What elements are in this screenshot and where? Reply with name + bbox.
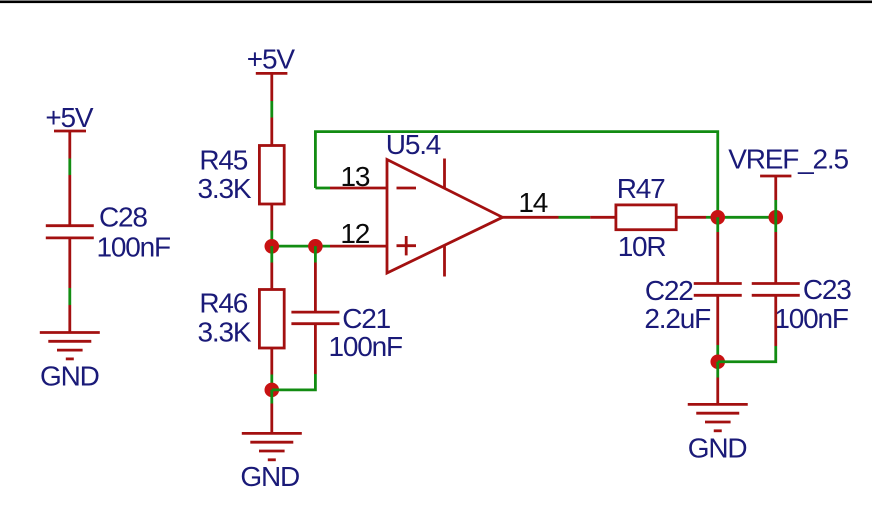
- svg-text:100nF: 100nF: [774, 303, 847, 334]
- wire C21 to ground node (green L): [272, 374, 316, 390]
- op-amp plus sign vertical: [405, 236, 408, 255]
- capacitor C28 top plate: [46, 224, 94, 227]
- wire (pin stub): [68, 305, 71, 333]
- wire C22 bottom (pin stub): [716, 295, 719, 345]
- ground symbol (right): [688, 404, 748, 430]
- VREF_2.5 supply bar: [760, 175, 791, 178]
- svg-text:13: 13: [341, 161, 370, 192]
- svg-text:C22: C22: [645, 275, 693, 306]
- resistor R45 body: [259, 146, 284, 205]
- op-amp U5.4 pin 13 stub: [330, 187, 387, 190]
- junction output node dot: [710, 210, 725, 225]
- junction node 12 (left dot): [265, 239, 280, 254]
- feedback wire from pin 13 to output node (green): [315, 132, 717, 218]
- wire (green net segment): [68, 159, 71, 176]
- junction node 12 (right dot at C21): [308, 239, 323, 254]
- ground symbol (left): [40, 333, 100, 359]
- svg-text:C28: C28: [99, 202, 147, 233]
- svg-text:12: 12: [340, 218, 369, 249]
- op-amp positive power stub: [443, 159, 446, 189]
- svg-text:100nF: 100nF: [329, 331, 402, 362]
- svg-text:R45: R45: [199, 144, 247, 175]
- wire C23 top (green below VREF node dot): [774, 217, 777, 232]
- wire +5V to R45 (pin stub): [270, 73, 273, 101]
- junction dot R46/C21 ground node: [265, 383, 280, 398]
- capacitor C21 bottom plate: [291, 322, 339, 325]
- +5V supply symbol (middle) bar: [256, 72, 288, 75]
- wire (green net segment): [774, 200, 777, 217]
- +5V supply symbol (left) bar: [54, 130, 86, 133]
- wire C22 top (green below output node dot): [716, 217, 719, 232]
- svg-text:U5.4: U5.4: [386, 129, 441, 160]
- wire R47 left pin stub: [590, 216, 616, 219]
- capacitor C22 top plate: [694, 282, 742, 285]
- sheet border top line: [0, 1, 872, 4]
- capacitor C28 bottom plate: [46, 236, 94, 239]
- op-amp minus sign (inverting input): [397, 187, 417, 190]
- svg-text:C21: C21: [342, 303, 390, 334]
- svg-text:GND: GND: [240, 461, 299, 492]
- wire output node to VREF node (green): [718, 216, 776, 219]
- svg-text:GND: GND: [688, 433, 747, 464]
- wire (green net segment): [716, 345, 719, 362]
- ground symbol (middle): [242, 433, 302, 459]
- op-amp plus sign (non-inverting input) horizontal: [397, 244, 417, 247]
- wire below junction (green): [270, 390, 273, 404]
- wire C28 to GND (pin stub): [68, 238, 71, 288]
- wire R47 right pin stub: [676, 216, 706, 219]
- capacitor C23 bottom plate: [752, 294, 800, 297]
- capacitor C23 top plate: [752, 282, 800, 285]
- svg-text:R46: R46: [199, 288, 247, 319]
- wire (green net segment): [270, 101, 273, 118]
- svg-text:100nF: 100nF: [97, 232, 170, 263]
- svg-text:3.3K: 3.3K: [198, 173, 252, 204]
- svg-text:GND: GND: [40, 361, 99, 392]
- wire output to R47 (green net): [559, 216, 591, 219]
- svg-text:14: 14: [518, 187, 547, 218]
- op-amp negative power stub: [443, 245, 446, 277]
- wire (pin stub): [716, 232, 719, 284]
- resistor R47 body: [616, 205, 676, 230]
- op-amp U5.4 pin 12 stub: [330, 245, 387, 248]
- svg-text:10R: 10R: [618, 231, 666, 262]
- svg-text:C23: C23: [803, 274, 851, 305]
- svg-text:2.2uF: 2.2uF: [644, 303, 710, 334]
- svg-text:R47: R47: [617, 173, 665, 204]
- resistor R46 body: [259, 290, 284, 349]
- wire C21 top (green below right dot): [314, 246, 317, 262]
- wire (pin stub): [270, 263, 273, 290]
- svg-text:+5V: +5V: [45, 102, 94, 133]
- capacitor C22 bottom plate: [694, 294, 742, 297]
- wire (pin stub to ground): [716, 378, 719, 405]
- wire node 12 horizontal net: [272, 245, 330, 248]
- wire R45 to node 12 (pin stub): [270, 204, 273, 231]
- wire R46 top (green net below left dot): [270, 246, 273, 262]
- wire (pin stub): [774, 232, 777, 284]
- op-amp U5.4 triangle body: [387, 160, 503, 274]
- wire (green net segment): [270, 231, 273, 247]
- wire C21 bottom (pin stub): [314, 324, 317, 374]
- wire (pin stub): [270, 118, 273, 146]
- wire pin 13 green stub: [315, 187, 330, 190]
- junction ground node dot (C22/C23): [710, 354, 725, 369]
- wire VREF bar down (pin stub): [774, 176, 777, 200]
- wire (pin stub): [314, 263, 317, 313]
- wire C23 bottom (pin stub): [774, 295, 777, 346]
- wire +5V to C28 (pin stub): [68, 131, 71, 159]
- wire (pin stub to ground): [270, 404, 273, 434]
- junction VREF node dot: [768, 210, 783, 225]
- wire R47 to output node (green): [706, 216, 718, 219]
- wire (green net segment): [68, 288, 71, 305]
- svg-text:+5V: +5V: [247, 44, 296, 75]
- svg-text:VREF_2.5: VREF_2.5: [728, 144, 848, 175]
- wire ground node to C23 (green L): [718, 346, 776, 362]
- wire (green net segment): [270, 375, 273, 390]
- svg-text:3.3K: 3.3K: [198, 316, 252, 347]
- wire R46 to ground node (pin stub): [270, 348, 273, 375]
- capacitor C21 top plate: [291, 311, 339, 314]
- wire below ground node (green): [716, 362, 719, 378]
- op-amp output pin 14 stub: [503, 216, 559, 219]
- wire (pin stub): [68, 175, 71, 226]
